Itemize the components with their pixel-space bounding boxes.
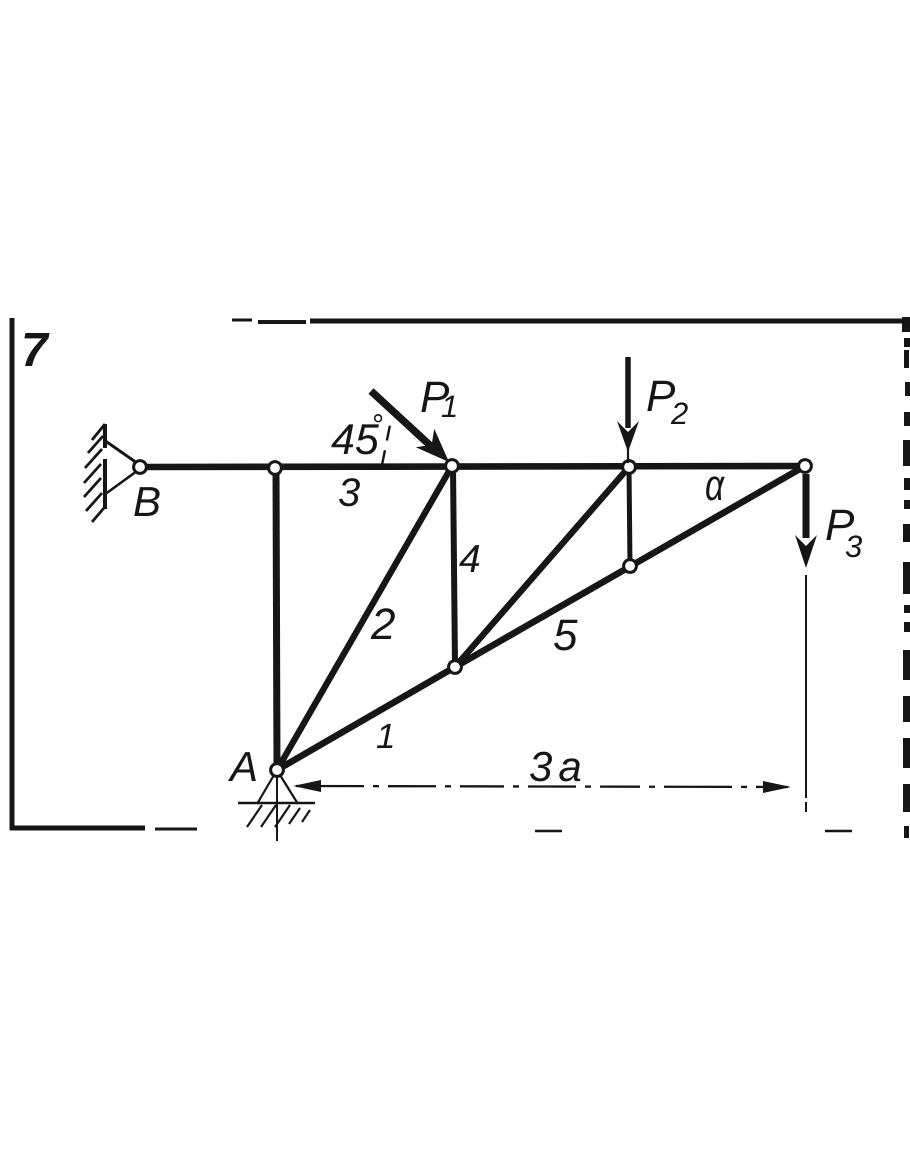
frame border top — [232, 320, 904, 322]
node N5 — [624, 560, 637, 573]
member top chord B to R — [143, 466, 805, 467]
force P1 arrow — [371, 391, 449, 462]
label node A — [227, 743, 258, 790]
svg-text:3a: 3a — [529, 743, 588, 790]
node T3 — [623, 461, 636, 474]
dimension extension line right — [805, 575, 807, 812]
svg-text:α: α — [705, 461, 726, 510]
label member 4 — [459, 538, 481, 581]
label angle alpha — [705, 461, 726, 510]
angle 45 dashed leg — [382, 420, 391, 465]
member 2 diagonal A to T2 — [277, 466, 452, 770]
label P3 — [825, 501, 862, 564]
member vertical T3 to N5 — [629, 467, 630, 566]
label P1 — [420, 373, 458, 424]
svg-text:5: 5 — [553, 611, 578, 660]
force P2 arrow — [617, 357, 639, 463]
frame border left — [10, 318, 15, 830]
svg-text:1: 1 — [376, 717, 395, 756]
svg-text:A: A — [227, 743, 258, 790]
support A ground hatching — [247, 805, 310, 827]
diagonal member N4 to T3 — [455, 467, 629, 667]
svg-text:2: 2 — [370, 600, 395, 649]
node A — [271, 764, 284, 777]
frame border bottom — [10, 828, 852, 831]
member left vertical T1 to A — [276, 468, 277, 770]
node B — [134, 461, 147, 474]
label member 1 — [376, 717, 395, 756]
force P3 arrow — [795, 474, 817, 568]
dimension line 3a — [293, 780, 791, 793]
label 3a — [529, 743, 588, 790]
svg-text:°: ° — [371, 409, 383, 442]
member 4 vertical T2 to N4 — [453, 466, 455, 667]
svg-text:2: 2 — [670, 396, 688, 431]
node T2 — [446, 460, 459, 473]
member 1 bottom chord A to N4 — [277, 667, 455, 770]
label member 2 — [370, 600, 395, 649]
svg-text:3: 3 — [338, 471, 360, 515]
svg-text:7: 7 — [21, 324, 50, 377]
label node B — [133, 478, 161, 525]
svg-text:4: 4 — [459, 538, 481, 581]
node R — [799, 460, 812, 473]
svg-text:1: 1 — [441, 389, 458, 424]
support A pin triangle — [238, 775, 315, 804]
frame border right — [902, 317, 910, 838]
svg-text:3: 3 — [845, 529, 862, 564]
node T1 — [269, 462, 282, 475]
svg-text:B: B — [133, 478, 161, 525]
label 45 degrees — [331, 409, 383, 464]
node N4 — [449, 661, 462, 674]
label member 5 — [553, 611, 578, 660]
label P2 — [646, 372, 688, 431]
extension line below node A — [276, 776, 278, 841]
support B pin triangle — [104, 440, 137, 495]
label member 3 — [338, 471, 360, 515]
member 5 bottom chord N4 to R — [455, 466, 805, 667]
figure number 7 — [21, 324, 50, 377]
support B wall hatching — [84, 424, 105, 522]
